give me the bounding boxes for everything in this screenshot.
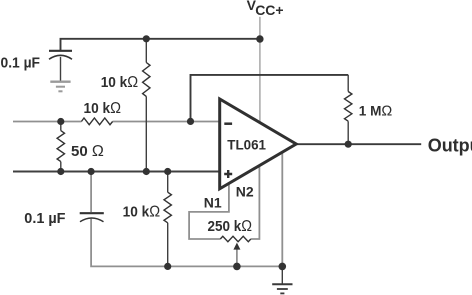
svg-text:CC+: CC+ [255,2,283,18]
svg-text:N1: N1 [204,194,222,210]
svg-text:N2: N2 [236,184,254,200]
svg-text:10 kΩ: 10 kΩ [101,74,139,91]
svg-text:10 kΩ: 10 kΩ [84,100,122,117]
svg-text:TL061: TL061 [227,136,266,152]
svg-text:Output: Output [428,135,472,155]
svg-text:250 kΩ: 250 kΩ [208,218,253,235]
svg-text:10 kΩ: 10 kΩ [123,204,161,221]
svg-text:1 MΩ: 1 MΩ [359,103,393,120]
svg-text:0.1 µF: 0.1 µF [1,55,41,72]
svg-text:0.1 µF: 0.1 µF [24,210,65,227]
svg-text:50 Ω: 50 Ω [71,143,104,160]
